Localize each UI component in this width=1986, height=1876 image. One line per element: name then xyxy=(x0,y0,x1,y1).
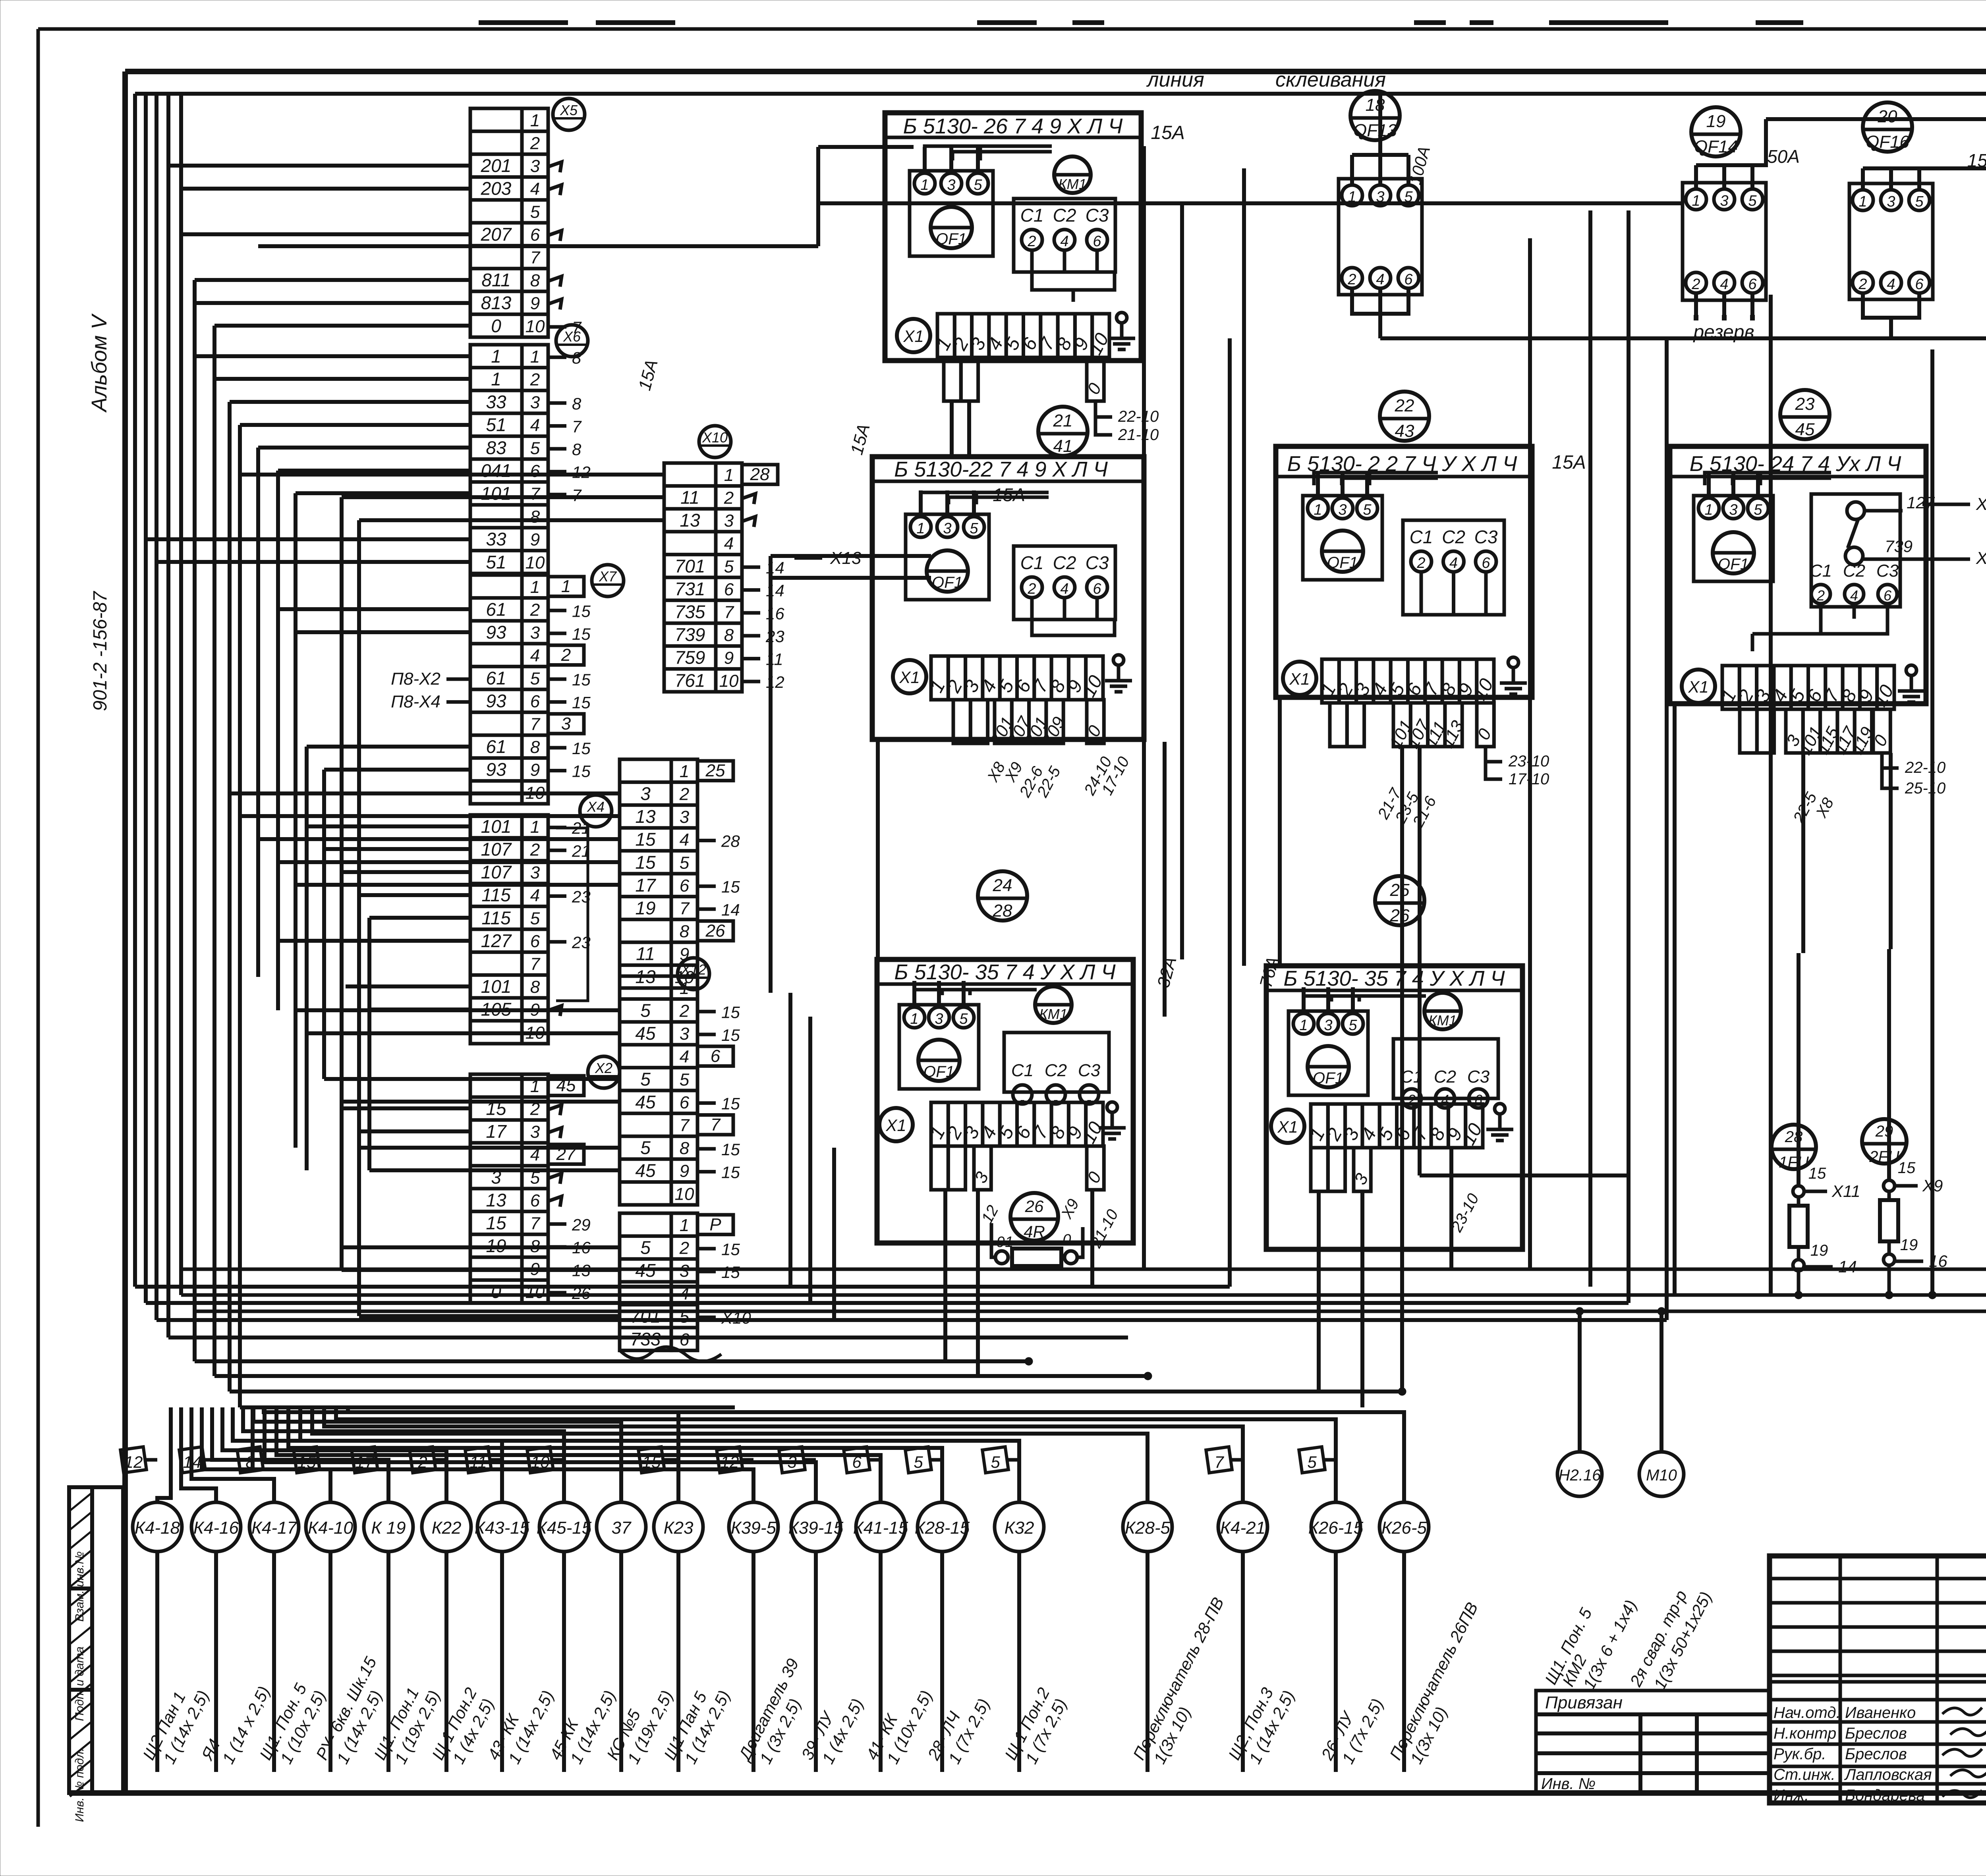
svg-text:15А: 15А xyxy=(993,484,1025,505)
svg-text:45: 45 xyxy=(1795,420,1815,439)
B5 supply wires xyxy=(914,990,1037,995)
svg-text:C3: C3 xyxy=(1876,561,1899,581)
svg-text:15: 15 xyxy=(721,1240,740,1258)
svg-text:C3: C3 xyxy=(1086,205,1109,226)
svg-text:X7: X7 xyxy=(599,568,617,585)
circuit breaker QF16 with circle 20 xyxy=(1849,102,1986,338)
svg-text:8: 8 xyxy=(530,1237,540,1256)
cable circle К26-5 xyxy=(1379,1502,1482,1772)
svg-text:C2: C2 xyxy=(1053,552,1076,573)
main earth bus double line xyxy=(181,1269,1986,1311)
svg-text:5: 5 xyxy=(974,177,982,193)
svg-text:735: 735 xyxy=(675,602,705,622)
svg-text:7: 7 xyxy=(530,1214,541,1233)
svg-text:701: 701 xyxy=(675,556,705,576)
svg-text:29: 29 xyxy=(1875,1123,1893,1140)
svg-text:Лапловская: Лапловская xyxy=(1844,1766,1932,1783)
B4 aux contact box xyxy=(1810,493,1986,619)
svg-text:К26-15: К26-15 xyxy=(1308,1518,1364,1538)
svg-text:8: 8 xyxy=(572,394,582,413)
B4 capacitor joining wire xyxy=(1752,619,1887,651)
svg-text:4: 4 xyxy=(530,416,540,435)
svg-text:К32: К32 xyxy=(1005,1518,1034,1538)
svg-text:45: 45 xyxy=(635,1023,656,1044)
svg-text:Б 5130- 35 7 4 У Х Л Ч: Б 5130- 35 7 4 У Х Л Ч xyxy=(1283,967,1505,990)
svg-text:C2: C2 xyxy=(1843,561,1865,581)
svg-text:2: 2 xyxy=(1027,233,1036,250)
wire tag 5 for К32 xyxy=(982,1447,1019,1473)
vertical feeders right of centre xyxy=(1530,210,1932,1320)
horizontal bus wires xyxy=(135,1287,1667,1407)
svg-text:Б 5130-22 7 4 9 Х Л Ч: Б 5130-22 7 4 9 Х Л Ч xyxy=(894,457,1108,481)
svg-text:К4-21: К4-21 xyxy=(1220,1518,1265,1538)
svg-text:К23: К23 xyxy=(664,1518,694,1538)
svg-text:К 19: К 19 xyxy=(371,1518,406,1538)
breaker unit B3 Б5130-227ЧУХЛЧ xyxy=(1276,446,1532,697)
fuse 1FU circle 28 xyxy=(1772,1125,1860,1295)
svg-text:10: 10 xyxy=(531,1453,550,1471)
svg-text:C3: C3 xyxy=(1086,552,1109,573)
cable circle К 19 xyxy=(364,1502,444,1772)
svg-text:14: 14 xyxy=(721,900,740,919)
svg-text:7: 7 xyxy=(680,899,690,919)
svg-text:6: 6 xyxy=(530,692,540,711)
svg-text:15: 15 xyxy=(298,1453,316,1471)
B1 annotation 22-10 21-10 xyxy=(1095,401,1159,444)
svg-text:15: 15 xyxy=(642,1453,661,1471)
B1 contactor KM1 xyxy=(1054,156,1091,193)
svg-text:4: 4 xyxy=(1449,555,1458,571)
svg-text:8: 8 xyxy=(245,1453,255,1471)
cable circle К4-21 xyxy=(1218,1502,1298,1772)
cable circle К4-17 xyxy=(249,1502,329,1772)
svg-text:25-10: 25-10 xyxy=(1905,780,1945,797)
svg-text:13: 13 xyxy=(635,806,656,827)
svg-text:X1: X1 xyxy=(1277,1117,1298,1136)
svg-text:К4-18: К4-18 xyxy=(135,1518,180,1538)
svg-text:3: 3 xyxy=(561,714,571,733)
terminal block X5 xyxy=(470,98,585,337)
svg-text:Ст.инж.: Ст.инж. xyxy=(1773,1766,1835,1783)
svg-text:2: 2 xyxy=(530,370,540,390)
breaker unit B5 Б5130-3574УХЛЧ xyxy=(877,959,1133,1243)
svg-text:9: 9 xyxy=(530,760,540,780)
B3 supply wires xyxy=(1314,473,1438,485)
cable circle К4-10 xyxy=(306,1502,386,1772)
wire fan to cable circles xyxy=(157,1407,678,1502)
svg-text:X8: X8 xyxy=(1976,494,1986,514)
svg-text:8: 8 xyxy=(680,922,690,941)
svg-text:X13: X13 xyxy=(830,548,862,568)
svg-text:20: 20 xyxy=(1878,107,1897,126)
svg-text:15: 15 xyxy=(486,1213,506,1233)
bracket frame right of X4 xyxy=(556,828,588,1001)
svg-text:6: 6 xyxy=(680,876,690,896)
B1 to B2 connecting wires xyxy=(258,147,969,457)
bus junction dots xyxy=(1025,1291,1986,1395)
svg-text:115: 115 xyxy=(481,907,511,928)
svg-text:21: 21 xyxy=(1053,411,1073,430)
svg-text:6: 6 xyxy=(1093,581,1101,597)
svg-text:17: 17 xyxy=(355,1453,375,1471)
B6 terminal strip X1 xyxy=(1271,1104,1486,1148)
B5 circuit 24/28 circle xyxy=(978,871,1027,921)
svg-text:5: 5 xyxy=(959,1011,968,1027)
wire tag 6 for К41-15 xyxy=(844,1447,881,1473)
svg-text:Альбом V: Альбом V xyxy=(87,313,111,413)
svg-text:5: 5 xyxy=(914,1453,923,1471)
svg-text:2: 2 xyxy=(561,645,571,665)
cable circle К28-15 xyxy=(915,1502,993,1772)
svg-text:C2: C2 xyxy=(1434,1067,1456,1087)
svg-text:1: 1 xyxy=(1692,193,1700,209)
svg-text:3: 3 xyxy=(640,784,651,804)
svg-text:3: 3 xyxy=(947,177,955,193)
svg-text:45: 45 xyxy=(635,1160,656,1181)
svg-text:2: 2 xyxy=(1858,276,1867,293)
svg-text:4: 4 xyxy=(530,179,540,199)
svg-text:1: 1 xyxy=(1704,502,1713,518)
svg-text:4: 4 xyxy=(724,534,734,554)
svg-text:Б 5130- 26 7 4 9 Х Л Ч: Б 5130- 26 7 4 9 Х Л Ч xyxy=(903,114,1123,138)
svg-text:115: 115 xyxy=(481,885,511,905)
cable circle К4-16 xyxy=(191,1502,273,1772)
B5 capacitor box xyxy=(1004,1033,1109,1104)
svg-text:2: 2 xyxy=(679,1239,689,1258)
svg-text:127: 127 xyxy=(481,930,512,951)
svg-text:739: 739 xyxy=(1885,537,1913,556)
svg-text:45: 45 xyxy=(635,1092,656,1112)
svg-text:13: 13 xyxy=(680,510,700,531)
svg-text:6: 6 xyxy=(711,1046,721,1066)
svg-text:28: 28 xyxy=(1785,1128,1803,1146)
svg-text:1: 1 xyxy=(491,369,501,390)
svg-text:28: 28 xyxy=(750,465,770,484)
svg-text:5: 5 xyxy=(640,1069,651,1089)
svg-text:739: 739 xyxy=(675,624,705,645)
terminal block X11 xyxy=(620,759,740,988)
svg-text:C1: C1 xyxy=(1020,552,1044,573)
svg-text:1: 1 xyxy=(910,1011,918,1027)
torn edge squiggle below X13 xyxy=(620,1347,721,1361)
title block xyxy=(1770,1556,1986,1804)
svg-text:15: 15 xyxy=(1808,1165,1826,1182)
svg-text:8: 8 xyxy=(724,625,734,645)
svg-text:13: 13 xyxy=(486,1190,506,1210)
circuit breaker QF13 with circle 18 xyxy=(1339,91,1433,338)
svg-text:C1: C1 xyxy=(1020,205,1044,226)
svg-text:23: 23 xyxy=(1795,394,1815,414)
svg-text:10: 10 xyxy=(525,1023,545,1042)
svg-text:5: 5 xyxy=(680,853,690,872)
wire tag 10 for К45-15 xyxy=(527,1447,564,1473)
svg-text:5: 5 xyxy=(991,1453,1000,1471)
svg-text:17: 17 xyxy=(635,875,656,896)
svg-text:3: 3 xyxy=(1720,193,1728,209)
svg-text:9: 9 xyxy=(530,294,540,313)
svg-text:33: 33 xyxy=(486,392,506,412)
svg-text:50А: 50А xyxy=(1767,146,1800,167)
B1 capacitor box C1 C2 C3 xyxy=(1014,199,1115,272)
wire tag 11 for К43-15 xyxy=(465,1447,502,1473)
svg-text:К41-15: К41-15 xyxy=(853,1518,908,1538)
svg-text:1: 1 xyxy=(1858,193,1867,210)
B2 ground xyxy=(1105,655,1132,692)
svg-text:22: 22 xyxy=(1395,396,1414,415)
svg-text:4: 4 xyxy=(1060,581,1068,597)
svg-text:1: 1 xyxy=(1314,502,1322,518)
svg-text:11: 11 xyxy=(636,944,655,964)
B4 circuit 23/45 circle xyxy=(1780,390,1830,439)
cable circle К28-5 xyxy=(1123,1502,1227,1772)
cable circle К39-5 xyxy=(729,1502,805,1772)
B6 hanging terminals xyxy=(1311,1148,1372,1191)
svg-text:6: 6 xyxy=(530,225,540,245)
svg-text:К28-5: К28-5 xyxy=(1125,1518,1171,1538)
svg-text:26: 26 xyxy=(1025,1197,1044,1216)
svg-text:П8-Х2: П8-Х2 xyxy=(391,669,440,689)
svg-text:Привязан: Привязан xyxy=(1545,1693,1623,1712)
svg-text:QF1: QF1 xyxy=(936,230,967,248)
cable circle К26-15 xyxy=(1308,1502,1387,1772)
svg-text:7: 7 xyxy=(530,955,541,974)
svg-text:6: 6 xyxy=(1404,271,1413,288)
svg-text:6: 6 xyxy=(530,932,540,951)
svg-text:12: 12 xyxy=(572,463,591,482)
svg-text:6: 6 xyxy=(852,1453,862,1471)
svg-text:203: 203 xyxy=(481,178,512,199)
svg-text:3: 3 xyxy=(680,1024,690,1044)
svg-text:КМ1: КМ1 xyxy=(1428,1012,1457,1029)
svg-text:X1: X1 xyxy=(899,668,920,687)
svg-text:2: 2 xyxy=(530,600,540,620)
svg-text:19: 19 xyxy=(1706,112,1726,131)
cable circle Н2-16 xyxy=(1541,1311,1640,1693)
svg-text:15: 15 xyxy=(721,878,740,896)
svg-text:X5: X5 xyxy=(560,102,578,118)
svg-text:5: 5 xyxy=(640,1000,651,1021)
wire tag 5 for К28-15 xyxy=(905,1447,942,1473)
svg-text:1: 1 xyxy=(680,762,689,781)
svg-text:5: 5 xyxy=(970,520,978,537)
svg-text:2: 2 xyxy=(1691,276,1700,293)
svg-text:5: 5 xyxy=(680,1070,690,1089)
B4 annotations xyxy=(1790,753,1945,826)
svg-text:2: 2 xyxy=(530,134,540,153)
svg-text:4: 4 xyxy=(1060,233,1068,250)
svg-text:1: 1 xyxy=(530,347,540,367)
svg-text:4: 4 xyxy=(1850,587,1858,604)
svg-text:1: 1 xyxy=(1299,1017,1308,1034)
B5 hanging terminals xyxy=(931,1146,1105,1190)
B3 capacitor box xyxy=(1403,520,1504,615)
svg-text:61: 61 xyxy=(486,736,506,757)
svg-text:41: 41 xyxy=(1053,436,1073,456)
svg-text:QF1: QF1 xyxy=(1313,1069,1344,1087)
svg-text:8: 8 xyxy=(572,440,582,459)
B3 hanging terminals xyxy=(1330,703,1495,752)
svg-text:5: 5 xyxy=(530,669,540,688)
svg-text:C3: C3 xyxy=(1078,1061,1101,1080)
svg-text:29: 29 xyxy=(572,1215,591,1234)
wire tag 2 for К22 xyxy=(410,1447,446,1473)
svg-text:14: 14 xyxy=(183,1453,202,1471)
svg-text:6: 6 xyxy=(680,1093,690,1112)
terminal block X2 xyxy=(470,1056,620,1303)
svg-text:759: 759 xyxy=(675,647,705,668)
svg-text:12: 12 xyxy=(124,1453,143,1471)
B6 contactor KM1 xyxy=(1424,993,1461,1029)
svg-text:К28-15: К28-15 xyxy=(915,1518,970,1538)
svg-text:X10: X10 xyxy=(702,429,728,446)
svg-text:3: 3 xyxy=(1729,502,1737,518)
svg-text:C2: C2 xyxy=(1053,205,1076,226)
svg-text:Бондарева: Бондарева xyxy=(1845,1787,1925,1804)
terminal block X4 xyxy=(470,795,612,1044)
svg-text:Н2.16: Н2.16 xyxy=(1559,1467,1601,1484)
svg-text:3: 3 xyxy=(530,156,540,176)
svg-text:4: 4 xyxy=(530,646,540,666)
B1 terminal strip X1 xyxy=(897,314,1113,358)
svg-text:26: 26 xyxy=(1390,906,1410,925)
svg-text:X10: X10 xyxy=(1976,548,1986,568)
svg-text:19: 19 xyxy=(1810,1242,1828,1259)
B6 QF1 switch xyxy=(1289,987,1368,1095)
svg-text:15: 15 xyxy=(721,1263,740,1282)
feeder wire to QF14 xyxy=(818,203,1683,742)
wire tag 12 for К4-18 xyxy=(120,1447,157,1473)
svg-text:3: 3 xyxy=(491,1167,501,1187)
svg-text:линия: линия xyxy=(1146,68,1204,91)
svg-text:6: 6 xyxy=(1884,587,1892,604)
svg-text:К39-15: К39-15 xyxy=(788,1518,844,1538)
svg-text:4: 4 xyxy=(530,1145,540,1165)
wire branches to terminal blocks column 2 xyxy=(230,475,664,1316)
svg-text:7: 7 xyxy=(530,715,541,734)
svg-text:7: 7 xyxy=(572,417,582,436)
svg-text:15А: 15А xyxy=(1151,122,1184,143)
svg-text:2: 2 xyxy=(679,1002,689,1021)
svg-text:3: 3 xyxy=(530,623,540,643)
svg-text:701: 701 xyxy=(630,1306,661,1326)
svg-text:X9: X9 xyxy=(1922,1176,1943,1195)
B2 capacitor box xyxy=(1014,546,1115,620)
breaker unit B2 Б5130-22749ХЛЧ xyxy=(872,457,1144,739)
svg-text:Б 5130- 35 7 4 У Х Л Ч: Б 5130- 35 7 4 У Х Л Ч xyxy=(894,960,1116,984)
B4 hanging terminals xyxy=(1740,709,1892,758)
svg-text:2: 2 xyxy=(1816,587,1825,604)
B3 ground xyxy=(1500,657,1527,694)
svg-text:15: 15 xyxy=(572,602,591,620)
svg-text:6: 6 xyxy=(724,580,734,599)
svg-text:761: 761 xyxy=(675,670,705,691)
svg-text:8: 8 xyxy=(530,977,540,997)
table to block crossing wires xyxy=(771,556,1891,1407)
svg-text:2: 2 xyxy=(1347,271,1356,288)
svg-text:22-10: 22-10 xyxy=(1118,408,1159,425)
cable circle К23 xyxy=(654,1502,734,1772)
svg-text:3: 3 xyxy=(1338,502,1347,518)
svg-text:QF1: QF1 xyxy=(923,1063,954,1081)
fuse 2FU circle 29 xyxy=(1862,1119,1947,1295)
svg-text:2: 2 xyxy=(724,488,734,508)
svg-text:4: 4 xyxy=(680,1047,689,1067)
svg-text:7: 7 xyxy=(680,1116,690,1135)
svg-text:X2: X2 xyxy=(595,1060,612,1076)
wire tag 14 for К4-16 xyxy=(179,1447,216,1473)
circuit breaker QF14 with circle 19 xyxy=(1683,107,1800,343)
svg-text:QF1: QF1 xyxy=(932,574,963,591)
svg-text:7: 7 xyxy=(572,486,582,504)
wire branches to terminal blocks column 1 xyxy=(146,166,470,1131)
B4 supply wires xyxy=(1705,473,1831,485)
cable circle М10 xyxy=(1626,1311,1716,1693)
svg-text:201: 201 xyxy=(481,155,512,176)
svg-text:15: 15 xyxy=(572,625,591,643)
svg-text:10: 10 xyxy=(525,553,545,572)
svg-text:X11: X11 xyxy=(1831,1182,1860,1200)
svg-text:Бреслов: Бреслов xyxy=(1845,1725,1907,1742)
svg-text:11: 11 xyxy=(469,1453,487,1471)
svg-text:15: 15 xyxy=(572,693,591,712)
B3 terminal strip X1 xyxy=(1283,659,1497,704)
svg-text:33: 33 xyxy=(486,529,506,550)
svg-text:28: 28 xyxy=(721,832,740,850)
svg-text:C2: C2 xyxy=(1045,1061,1067,1080)
svg-text:5: 5 xyxy=(724,557,734,576)
B6 ground xyxy=(1486,1104,1513,1141)
stamp column hatching xyxy=(70,1493,91,1797)
svg-text:9: 9 xyxy=(530,1000,540,1020)
svg-text:Инж.: Инж. xyxy=(1773,1787,1809,1804)
B4 QF1 switch xyxy=(1694,472,1773,581)
svg-text:6: 6 xyxy=(1915,276,1924,293)
wire tag 15 for К23 xyxy=(638,1447,678,1473)
svg-text:5: 5 xyxy=(1363,502,1372,518)
B5 terminal strip X1 xyxy=(879,1102,1107,1147)
B2 QF1 switch xyxy=(906,490,989,600)
svg-text:101: 101 xyxy=(481,976,512,997)
svg-text:8: 8 xyxy=(530,507,540,527)
svg-text:6: 6 xyxy=(530,1191,540,1210)
resistor unit 26/4R xyxy=(978,1193,1122,1266)
svg-text:X1: X1 xyxy=(1289,670,1310,688)
svg-text:QF1: QF1 xyxy=(1327,554,1358,571)
svg-text:61: 61 xyxy=(486,668,506,688)
svg-text:6: 6 xyxy=(530,461,540,481)
svg-text:Р: Р xyxy=(709,1215,721,1234)
svg-text:14: 14 xyxy=(1838,1257,1857,1276)
svg-text:4: 4 xyxy=(1887,276,1895,293)
svg-text:15: 15 xyxy=(486,1098,506,1119)
svg-text:Рук.бр.: Рук.бр. xyxy=(1773,1745,1826,1763)
svg-text:1: 1 xyxy=(916,520,925,537)
svg-text:15: 15 xyxy=(635,829,656,850)
svg-text:10: 10 xyxy=(525,783,545,803)
svg-text:8: 8 xyxy=(680,1139,690,1158)
terminal block X12 xyxy=(620,958,740,1205)
svg-text:10: 10 xyxy=(719,671,739,691)
svg-text:15: 15 xyxy=(572,762,591,780)
svg-text:207: 207 xyxy=(481,224,512,245)
svg-text:10: 10 xyxy=(525,317,545,336)
svg-text:Бреслов: Бреслов xyxy=(1845,1745,1907,1763)
svg-text:83: 83 xyxy=(486,437,506,458)
svg-text:C1: C1 xyxy=(1810,561,1832,581)
svg-text:3: 3 xyxy=(1324,1017,1332,1034)
svg-text:10: 10 xyxy=(675,1184,694,1204)
cable circle К39-15 xyxy=(788,1502,867,1772)
